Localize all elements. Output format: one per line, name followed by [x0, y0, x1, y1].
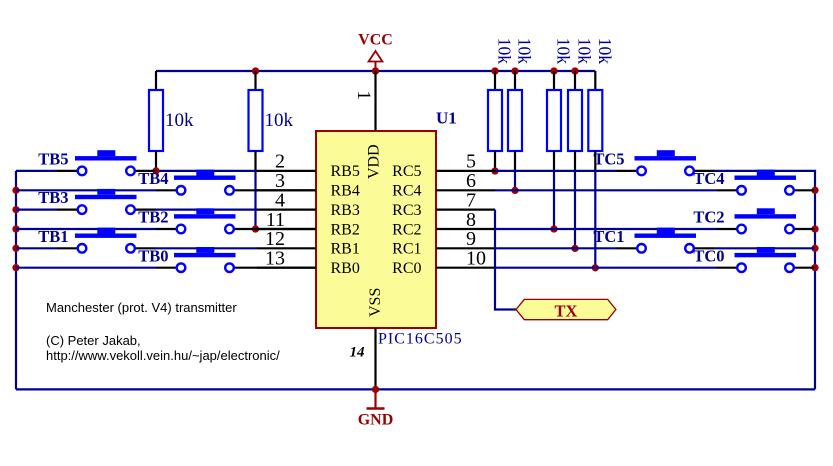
- svg-text:RB1: RB1: [331, 241, 360, 258]
- svg-text:RB2: RB2: [331, 221, 360, 238]
- junction: R6 to RC1 row: [571, 245, 578, 252]
- svg-text:TB1: TB1: [38, 227, 68, 246]
- resistor R2 10k: [249, 71, 294, 171]
- wire: R7 bottom to RC0 net: [594, 171, 596, 268]
- svg-text:TB4: TB4: [138, 169, 168, 188]
- pin names RC5-RC0: [392, 163, 421, 277]
- wire: RB2 row net: [16, 228, 157, 230]
- pin 14 VSS lead: [374, 328, 376, 389]
- svg-text:PIC16C505: PIC16C505: [378, 331, 463, 348]
- wire: bottom ground rail: [16, 388, 815, 390]
- junction: R5 to RC2 row: [550, 225, 557, 232]
- svg-text:10k: 10k: [554, 38, 574, 65]
- wire: left bus vertical: [15, 171, 17, 390]
- wire: right bus vertical: [814, 171, 816, 390]
- svg-text:VSS: VSS: [367, 288, 384, 317]
- wire: RC2 row net: [495, 228, 717, 230]
- pushbutton TB3: [38, 188, 155, 214]
- junction: R2 top on rail: [252, 67, 259, 74]
- pushbutton TC0: [693, 246, 814, 272]
- svg-text:Manchester (prot. V4) transmit: Manchester (prot. V4) transmitter: [46, 300, 237, 315]
- svg-text:10k: 10k: [165, 110, 194, 131]
- svg-text:RC0: RC0: [392, 260, 421, 277]
- svg-text:RB4: RB4: [331, 183, 360, 200]
- svg-text:TC2: TC2: [693, 208, 724, 227]
- svg-text:14: 14: [350, 345, 366, 361]
- pushbutton TB2: [138, 208, 316, 234]
- junction: VCC to rail: [372, 67, 379, 74]
- wire: RC3 to TX: [495, 210, 516, 310]
- wire: top VCC rail: [156, 70, 595, 72]
- pushbutton TC1: [593, 227, 714, 253]
- resistor R1 10k: [149, 71, 194, 171]
- svg-text:RB0: RB0: [331, 260, 360, 277]
- resistor R6 10k: [568, 38, 595, 171]
- right bus junctions: [811, 187, 818, 194]
- wire: RB0 row net: [16, 267, 157, 269]
- junction: R4 top on rail: [511, 67, 518, 74]
- svg-text:VDD: VDD: [366, 144, 383, 179]
- title text block: [46, 300, 280, 363]
- svg-text:TB2: TB2: [138, 208, 168, 227]
- net flag TX: [516, 299, 616, 320]
- pin 1 VDD lead: [374, 71, 376, 131]
- pushbutton TC2: [693, 208, 814, 234]
- junction: R6 top on rail: [571, 67, 578, 74]
- IC U1 PIC16C505 body: [316, 131, 436, 328]
- svg-text:RC5: RC5: [392, 163, 421, 180]
- svg-text:TX: TX: [555, 302, 578, 321]
- svg-text:TB3: TB3: [38, 188, 68, 207]
- svg-text:10k: 10k: [575, 38, 595, 65]
- svg-text:RC2: RC2: [392, 221, 421, 238]
- pushbutton TB0: [138, 246, 316, 272]
- svg-text:TB0: TB0: [138, 246, 168, 265]
- pin numbers 2,3,4,11,12,13: [265, 151, 285, 270]
- svg-text:TC5: TC5: [593, 150, 624, 169]
- svg-text:10k: 10k: [515, 38, 535, 65]
- IC pin leads left (pins 2,3,4,11,12,13): [257, 171, 316, 268]
- svg-text:TC0: TC0: [693, 246, 724, 265]
- pushbutton TB4: [138, 169, 316, 195]
- junction: R4 to RC4 row: [511, 187, 518, 194]
- pushbutton TB5: [38, 150, 155, 176]
- svg-text:10k: 10k: [595, 38, 615, 65]
- svg-text:13: 13: [265, 248, 285, 270]
- svg-text:RC1: RC1: [392, 241, 421, 258]
- wire: R6 bottom to RC1 net: [574, 171, 576, 248]
- wire: R2 bottom to RB2 net: [254, 171, 256, 229]
- resistor R5 10k: [547, 38, 574, 171]
- resistor R4 10k: [508, 38, 535, 171]
- junction: R3 to RC5 row: [491, 167, 498, 174]
- wire: RB1 row nets: [16, 247, 257, 249]
- wire: RC0 row net: [495, 267, 717, 269]
- svg-text:10k: 10k: [265, 110, 294, 131]
- wire: RC1 row nets: [495, 247, 815, 249]
- wire: RC5 row nets: [495, 170, 816, 172]
- svg-text:TC1: TC1: [593, 227, 624, 246]
- pushbutton TC4: [693, 169, 814, 195]
- junction: R2 to RB2 row: [252, 225, 259, 232]
- svg-text:RC3: RC3: [392, 202, 421, 219]
- junction: R3 top on rail: [491, 67, 498, 74]
- svg-text:RC4: RC4: [392, 183, 421, 200]
- IC pin leads right (pins 5,6,7,8,9,10): [436, 171, 495, 268]
- junction: R5 top on rail: [550, 67, 557, 74]
- junction: R7 to RC0 row: [592, 264, 599, 271]
- junction: GND on bottom rail: [372, 386, 379, 393]
- svg-text:(C) Peter Jakab,: (C) Peter Jakab,: [46, 333, 141, 348]
- pushbutton TB1: [38, 227, 155, 253]
- svg-text:TB5: TB5: [38, 150, 68, 169]
- pin numbers 5,6,7,8,9,10: [466, 151, 486, 270]
- GND power symbol: [358, 389, 394, 428]
- svg-text:10: 10: [466, 248, 486, 270]
- svg-text:U1: U1: [436, 109, 457, 128]
- wire: RB4 row net: [16, 189, 157, 191]
- resistor R3 10k: [488, 38, 515, 171]
- wire: RC4 row net: [495, 189, 717, 191]
- svg-text:TC4: TC4: [693, 169, 724, 188]
- VCC power symbol: [358, 32, 393, 72]
- pushbutton TC5: [593, 150, 714, 176]
- wire: R5 bottom to RC2 net: [553, 171, 555, 229]
- svg-text:VCC: VCC: [358, 32, 393, 49]
- left bus junctions: [12, 187, 19, 194]
- junction: R1 to RB5 row: [152, 167, 159, 174]
- pin names RB5-RB0: [331, 163, 360, 277]
- svg-text:GND: GND: [358, 412, 394, 429]
- svg-text:http://www.vekoll.vein.hu/~jap: http://www.vekoll.vein.hu/~jap/electroni…: [46, 348, 280, 363]
- wire: RB3 row nets: [16, 209, 257, 211]
- resistor R7 10k: [588, 38, 615, 171]
- svg-text:RB3: RB3: [331, 202, 360, 219]
- wire: R4 bottom to RC4 net: [514, 171, 516, 190]
- svg-text:10k: 10k: [495, 38, 515, 65]
- wire: RB5 row nets: [16, 170, 257, 172]
- svg-text:RB5: RB5: [331, 163, 360, 180]
- svg-text:1: 1: [353, 91, 374, 101]
